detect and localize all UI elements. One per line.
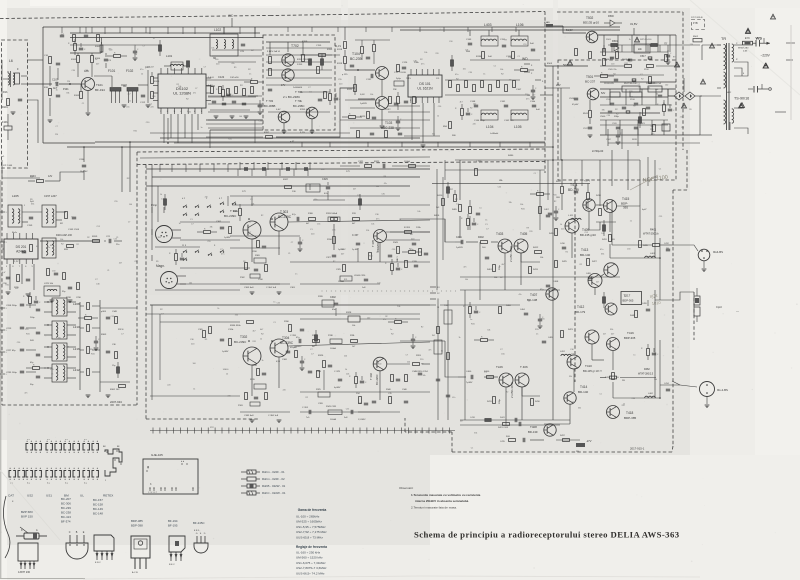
- wire: [502, 44, 506, 46]
- wire: [184, 114, 186, 138]
- wire: [741, 42, 744, 44]
- wire: [175, 488, 177, 491]
- box: [391, 375, 394, 382]
- svg-text:1n: 1n: [390, 329, 392, 331]
- warning triangle: [763, 63, 768, 68]
- svg-text:1n: 1n: [249, 74, 251, 76]
- wire: [68, 299, 73, 301]
- svg-text:C 378: C 378: [334, 371, 341, 373]
- wire: [378, 69, 380, 77]
- wire: [29, 561, 31, 569]
- junction: [84, 452, 85, 453]
- svg-text:1k: 1k: [560, 224, 562, 226]
- box: [493, 397, 496, 404]
- wire: [221, 210, 224, 212]
- wire: [83, 471, 85, 478]
- box: [348, 316, 360, 322]
- svg-text:10k: 10k: [223, 369, 226, 371]
- svg-text:BC-237: BC-237: [585, 80, 596, 84]
- wire: [607, 343, 611, 345]
- wire: [82, 166, 86, 168]
- svg-text:G: G: [196, 533, 198, 535]
- junction: [51, 452, 52, 453]
- wire: [469, 142, 471, 147]
- svg-text:C383 6n8: C383 6n8: [244, 415, 254, 417]
- wire: [600, 124, 668, 126]
- inductor: [46, 241, 48, 245]
- wire: [233, 202, 236, 204]
- svg-text:0,6V: 0,6V: [276, 109, 281, 111]
- wire: [138, 84, 148, 86]
- wire: [150, 132, 350, 134]
- wire: [327, 182, 329, 185]
- box: [243, 89, 246, 96]
- svg-text:DS 201: DS 201: [16, 245, 27, 249]
- wire: [432, 97, 434, 103]
- box: [80, 92, 83, 99]
- wire: [469, 30, 471, 36]
- wire: [575, 183, 577, 190]
- circle: [607, 406, 620, 419]
- wire: [87, 115, 88, 117]
- svg-text:WFW7-280/0,5A: WFW7-280/0,5A: [646, 82, 661, 85]
- wire: [298, 248, 303, 250]
- wire: [604, 269, 608, 271]
- box: [329, 94, 332, 101]
- svg-text:C144 390p: C144 390p: [474, 120, 485, 122]
- wire: [394, 104, 398, 106]
- wire: [556, 439, 580, 441]
- wire: [521, 387, 523, 420]
- svg-text:10k: 10k: [487, 330, 490, 332]
- wire: [209, 130, 211, 148]
- wire: [400, 340, 430, 342]
- wire: [354, 76, 356, 95]
- junction: [60, 441, 61, 442]
- svg-text:4k7: 4k7: [603, 334, 606, 336]
- svg-text:F102: F102: [126, 69, 133, 73]
- junction: [36, 468, 37, 469]
- wire: [342, 116, 349, 118]
- wire: [123, 105, 126, 107]
- wire: [50, 444, 52, 451]
- svg-text:17V: 17V: [346, 171, 350, 173]
- box: [285, 186, 292, 189]
- wire: [553, 25, 563, 27]
- svg-text:C55: C55: [111, 316, 114, 318]
- junction: [78, 452, 79, 453]
- box: [211, 87, 214, 94]
- junction: [65, 452, 66, 453]
- junction: [436, 290, 439, 293]
- wire: [133, 57, 138, 59]
- wire: [96, 551, 98, 560]
- wire: [422, 147, 423, 149]
- junction: [69, 468, 70, 469]
- svg-text:R103: R103: [71, 59, 77, 61]
- junction: [165, 232, 166, 233]
- circle: [82, 78, 95, 91]
- wire: [546, 286, 550, 288]
- wire: [243, 355, 248, 357]
- wire: [210, 109, 250, 111]
- svg-text:C517: C517: [640, 55, 646, 58]
- warning triangle: [739, 103, 744, 108]
- svg-text:C7: C7: [204, 67, 206, 69]
- wire: [435, 428, 437, 434]
- wire: [397, 128, 400, 130]
- svg-text:C7: C7: [163, 134, 165, 136]
- wire: [612, 351, 614, 370]
- svg-text:J217-345: J217-345: [3, 165, 13, 167]
- svg-text:47n: 47n: [43, 258, 46, 260]
- box: [77, 56, 80, 63]
- svg-text:10k: 10k: [211, 48, 214, 50]
- svg-text:27V: 27V: [556, 83, 561, 87]
- wire: [22, 471, 24, 478]
- wire: [571, 364, 578, 368]
- wire: [430, 292, 436, 294]
- wire: [338, 428, 340, 434]
- wire: [504, 253, 506, 290]
- wire: [101, 551, 103, 560]
- svg-text:0,V: 0,V: [2, 272, 6, 274]
- svg-text:R2: R2: [76, 244, 78, 246]
- junction: [703, 257, 705, 259]
- svg-text:BD-135 gr10: BD-135 gr10: [580, 233, 596, 237]
- svg-text:A C B: A C B: [132, 571, 138, 574]
- wire: [298, 241, 302, 243]
- wire: [92, 444, 94, 451]
- svg-text:4k7: 4k7: [151, 67, 154, 69]
- junction: [380, 290, 383, 293]
- svg-text:BD-179: BD-179: [575, 310, 586, 314]
- junction: [40, 479, 41, 480]
- svg-text:47n: 47n: [205, 197, 208, 199]
- wire: [734, 68, 742, 76]
- svg-text:33k: 33k: [601, 254, 604, 256]
- svg-text:C1: C1: [528, 300, 530, 302]
- box: [409, 251, 416, 254]
- wire: [153, 85, 158, 87]
- box: [302, 55, 305, 62]
- wire: [44, 377, 52, 379]
- wire: [12, 112, 15, 114]
- box: [391, 264, 394, 271]
- svg-text:3: 3: [6, 242, 7, 244]
- wire: [266, 61, 332, 63]
- wire: [147, 105, 150, 107]
- svg-text:UL 1200N: UL 1200N: [173, 91, 191, 96]
- junction: [167, 142, 169, 144]
- svg-text:C55: C55: [134, 261, 137, 263]
- svg-text:BDP-398: BDP-398: [131, 524, 143, 528]
- wire: [535, 79, 541, 81]
- svg-text:—: —: [736, 309, 739, 313]
- wire: [472, 375, 474, 379]
- svg-text:C30: C30: [607, 115, 610, 117]
- svg-text:390µ: 390µ: [614, 116, 620, 118]
- wire: [589, 91, 591, 98]
- wire: [574, 190, 578, 192]
- wire: [222, 85, 224, 89]
- box: [18, 543, 38, 561]
- wire: [654, 290, 656, 340]
- wire: [2, 404, 137, 406]
- wire: [765, 65, 767, 66]
- wire: [250, 291, 255, 293]
- wire: [366, 428, 368, 434]
- wire: [87, 91, 89, 113]
- wire: [180, 68, 182, 74]
- wire: [227, 93, 231, 95]
- wire: [299, 244, 301, 248]
- wire: [283, 133, 284, 135]
- wire: [69, 535, 71, 543]
- svg-text:5W7-D0-100: 5W7-D0-100: [640, 39, 652, 41]
- wire: [140, 157, 430, 158]
- wire: [474, 106, 478, 108]
- svg-text:1k: 1k: [141, 74, 143, 76]
- wire: [197, 231, 204, 233]
- wire: [211, 231, 218, 233]
- svg-text:RETEX: RETEX: [103, 494, 113, 498]
- wire: [231, 18, 233, 27]
- junction: [47, 479, 48, 480]
- wire: [94, 75, 112, 77]
- wire: [610, 338, 617, 342]
- box: [397, 65, 400, 72]
- wire: [274, 343, 276, 354]
- wire: [474, 104, 478, 106]
- circle: [376, 97, 389, 110]
- junction: [74, 479, 75, 480]
- wire: [326, 186, 330, 188]
- wire: [531, 48, 535, 50]
- inductor: [481, 113, 485, 115]
- wire: [561, 194, 563, 210]
- circle: [270, 213, 288, 231]
- wire: [711, 45, 713, 46]
- box: [589, 111, 592, 118]
- box: [306, 184, 320, 192]
- svg-text:BC-207: BC-207: [61, 497, 71, 501]
- svg-text:10k: 10k: [654, 379, 657, 381]
- wire: [297, 428, 299, 434]
- wire: [80, 43, 82, 47]
- wire: [32, 233, 34, 239]
- wire: [20, 326, 24, 328]
- wire: [472, 222, 476, 224]
- wire: [411, 103, 413, 140]
- wire: [445, 341, 458, 377]
- wire: [72, 216, 76, 218]
- junction: [454, 290, 457, 293]
- wire: [668, 95, 674, 97]
- wire: [438, 69, 440, 75]
- junction: [195, 251, 196, 252]
- junction: [413, 290, 416, 293]
- wire: [123, 85, 125, 87]
- wire: [345, 428, 347, 434]
- wire: [590, 95, 596, 98]
- box: [235, 87, 238, 94]
- svg-text:R709: R709: [302, 41, 308, 43]
- wire: [220, 340, 224, 342]
- wire: [607, 305, 609, 312]
- junction: [14, 468, 15, 469]
- wire: [0, 16, 270, 19]
- wire: [74, 39, 76, 43]
- wire: [21, 75, 27, 77]
- svg-text:47n: 47n: [452, 397, 455, 399]
- wire: [27, 59, 43, 61]
- wire: [206, 100, 211, 102]
- wire: [300, 360, 304, 362]
- svg-text:10k: 10k: [251, 204, 254, 206]
- wire: [524, 312, 528, 314]
- wire: [302, 42, 304, 54]
- wire: [589, 137, 590, 139]
- wire: [42, 27, 44, 143]
- wire: [290, 428, 292, 434]
- wire: [80, 349, 84, 351]
- wire: [428, 428, 430, 434]
- wire: [1, 160, 3, 176]
- svg-text:BC-308B: BC-308B: [264, 104, 275, 108]
- box: [134, 539, 147, 549]
- junction: [10, 479, 11, 480]
- wire: [520, 422, 522, 426]
- wire: [68, 286, 72, 288]
- junction: [357, 290, 360, 293]
- svg-text:1k: 1k: [483, 74, 485, 76]
- wire: [734, 44, 742, 46]
- wire: [307, 169, 309, 176]
- wire: [402, 66, 406, 68]
- svg-text:R31: R31: [188, 112, 191, 114]
- wire: [77, 444, 79, 451]
- wire: [562, 248, 566, 250]
- svg-text:C162 1n5: C162 1n5: [504, 120, 514, 122]
- wire: [381, 80, 383, 97]
- svg-text:22n: 22n: [638, 48, 643, 51]
- junction: [181, 463, 182, 464]
- svg-text:C213: C213: [6, 328, 12, 330]
- svg-text:33k: 33k: [366, 230, 369, 232]
- box: [413, 363, 420, 366]
- svg-text:C408: C408: [553, 281, 559, 283]
- wire: [412, 348, 413, 350]
- box: [625, 65, 632, 68]
- wire: [381, 126, 384, 128]
- wire: [379, 67, 386, 71]
- wire: [244, 115, 249, 117]
- box: [397, 247, 400, 254]
- wire: [693, 292, 695, 340]
- junction: [106, 451, 107, 452]
- svg-text:C55: C55: [321, 169, 324, 171]
- svg-text:1n: 1n: [71, 217, 73, 219]
- svg-text:RsFm - 022F - 02: RsFm - 022F - 02: [262, 477, 285, 481]
- wire: [222, 104, 226, 106]
- wire: [278, 294, 279, 296]
- box: [324, 92, 327, 99]
- inductor: [732, 44, 734, 48]
- wire: [532, 85, 534, 90]
- junction: [210, 206, 211, 207]
- wire: [44, 301, 52, 303]
- junction: [168, 282, 169, 283]
- inductor: [12, 209, 14, 213]
- box: [481, 36, 498, 46]
- wire: [531, 89, 535, 91]
- svg-text:A244D: A244D: [16, 250, 26, 254]
- wire: [396, 380, 400, 382]
- wire: [524, 71, 530, 73]
- inductor: [63, 323, 65, 327]
- wire: [79, 302, 81, 390]
- svg-text:1n: 1n: [95, 59, 97, 61]
- wire: [105, 63, 107, 68]
- box: [467, 219, 470, 226]
- circle: [374, 230, 387, 243]
- wire: [251, 422, 252, 424]
- wire: [7, 294, 8, 296]
- wire: [402, 321, 409, 323]
- circle: [514, 239, 528, 253]
- wire: [56, 64, 60, 66]
- box: [119, 385, 126, 388]
- wire: [201, 68, 203, 74]
- svg-text:BF-245C: BF-245C: [193, 521, 205, 525]
- svg-text:1n: 1n: [376, 252, 378, 254]
- svg-text:47n: 47n: [221, 254, 224, 256]
- svg-text:C1: C1: [599, 394, 601, 396]
- wire: [201, 108, 203, 114]
- wire: [568, 222, 570, 230]
- wire: [600, 65, 624, 67]
- svg-text:10k: 10k: [540, 257, 543, 259]
- wire: [254, 268, 258, 270]
- wire: [200, 536, 202, 543]
- svg-text:T411: T411: [570, 183, 578, 187]
- wire: [207, 428, 209, 434]
- wire: [92, 305, 100, 307]
- wire: [239, 216, 241, 221]
- junction: [97, 452, 98, 453]
- svg-text:p303: p303: [101, 311, 107, 313]
- wire: [108, 239, 110, 243]
- svg-text:C30: C30: [392, 249, 395, 251]
- wire: [696, 288, 698, 296]
- circle: [499, 373, 513, 387]
- svg-text:BC-306: BC-306: [61, 502, 71, 506]
- box: [461, 109, 464, 116]
- wire: [293, 169, 295, 176]
- box: [405, 261, 408, 268]
- svg-text:u o: u o: [65, 439, 68, 441]
- box: [317, 67, 320, 74]
- svg-text:100: 100: [239, 116, 242, 118]
- svg-text:1µ/63V: 1µ/63V: [222, 351, 229, 353]
- wire: [104, 60, 108, 62]
- box: [694, 296, 700, 305]
- junction: [78, 441, 79, 442]
- wire: [414, 428, 416, 434]
- wire: [74, 51, 76, 55]
- svg-text:T410: T410: [585, 364, 592, 368]
